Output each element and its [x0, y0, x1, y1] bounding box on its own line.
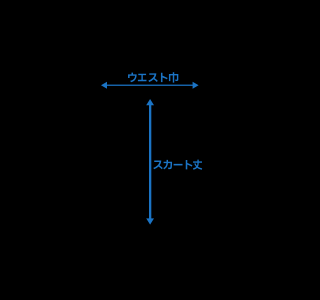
top arrowhead: [146, 99, 154, 105]
left arrowhead: [101, 82, 107, 89]
wire: [149, 104, 151, 221]
vertical double arrow (skirt length): [146, 99, 154, 225]
label: skirt length 'スカート丈': [153, 160, 202, 170]
bottom arrowhead: [146, 218, 154, 224]
wire: [105, 85, 195, 86]
right arrowhead: [193, 82, 199, 89]
label: waist width 'ウエスト巾': [128, 72, 178, 82]
horizontal double arrow (waist width): [101, 82, 199, 89]
